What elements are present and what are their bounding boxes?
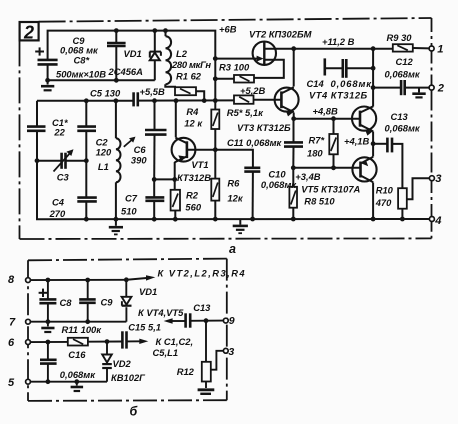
svg-text:22: 22 <box>53 127 65 138</box>
svg-text:120: 120 <box>96 147 112 158</box>
svg-text:С5,L1: С5,L1 <box>153 347 179 358</box>
svg-text:С14: С14 <box>307 78 325 89</box>
svg-text:С5 130: С5 130 <box>90 87 121 98</box>
svg-text:VT3 КТ312Б: VT3 КТ312Б <box>237 122 291 133</box>
svg-text:R8 510: R8 510 <box>304 196 335 207</box>
svg-text:L2: L2 <box>176 48 188 59</box>
svg-text:0,068мк: 0,068мк <box>60 369 96 380</box>
svg-text:б: б <box>130 405 139 419</box>
svg-text:С3: С3 <box>57 172 70 183</box>
svg-text:6: 6 <box>8 337 15 349</box>
svg-text:С8: С8 <box>60 297 73 308</box>
svg-text:R9 30: R9 30 <box>387 32 413 43</box>
svg-text:L1: L1 <box>98 161 109 172</box>
svg-text:3: 3 <box>435 173 442 185</box>
svg-text:0,068мк: 0,068мк <box>385 68 421 79</box>
svg-text:С15 5,1: С15 5,1 <box>128 321 161 332</box>
svg-text:R6: R6 <box>227 178 240 189</box>
svg-text:470: 470 <box>375 197 392 208</box>
svg-text:С10: С10 <box>268 169 286 180</box>
svg-text:R7*: R7* <box>309 135 326 146</box>
svg-text:390: 390 <box>131 154 147 165</box>
svg-text:VT5 КТ3107А: VT5 КТ3107А <box>301 183 360 194</box>
svg-text:С12: С12 <box>396 56 414 67</box>
svg-text:R1 62: R1 62 <box>176 71 202 82</box>
svg-text:К С1,С2,: К С1,С2, <box>156 336 194 347</box>
svg-text:С6: С6 <box>134 144 147 155</box>
svg-text:С13: С13 <box>193 302 211 313</box>
svg-text:R3 100: R3 100 <box>219 62 250 73</box>
svg-text:КТ312В: КТ312В <box>177 172 211 183</box>
svg-text:12 к: 12 к <box>184 118 203 129</box>
svg-text:С8*: С8* <box>74 54 91 65</box>
svg-text:С9: С9 <box>101 296 114 307</box>
svg-text:1: 1 <box>437 44 443 56</box>
svg-text:R5* 5,1к: R5* 5,1к <box>227 107 264 118</box>
svg-text:С16: С16 <box>68 349 86 360</box>
svg-text:+4,8В: +4,8В <box>313 105 339 116</box>
svg-text:270: 270 <box>49 208 66 219</box>
svg-text:5: 5 <box>8 377 15 389</box>
svg-text:+11,2 В: +11,2 В <box>322 36 355 47</box>
svg-text:R11 100к: R11 100к <box>62 324 103 335</box>
svg-text:9: 9 <box>229 315 235 327</box>
svg-text:R2: R2 <box>186 189 199 200</box>
svg-text:С4: С4 <box>52 196 65 207</box>
svg-text:4: 4 <box>434 215 442 227</box>
svg-text:0,068мк: 0,068мк <box>261 179 297 190</box>
svg-text:2: 2 <box>23 23 34 43</box>
svg-text:R4: R4 <box>186 106 199 117</box>
svg-text:0,068мк: 0,068мк <box>331 78 373 89</box>
svg-text:а: а <box>229 242 236 256</box>
svg-text:2: 2 <box>437 83 445 95</box>
svg-text:К VT4,VT5: К VT4,VT5 <box>138 307 184 318</box>
svg-text:7: 7 <box>9 316 16 328</box>
svg-text:R12: R12 <box>177 366 195 377</box>
svg-text:+3,4В: +3,4В <box>295 171 321 182</box>
svg-text:VT1: VT1 <box>191 159 208 170</box>
svg-text:0,068мк: 0,068мк <box>385 123 421 134</box>
svg-text:180: 180 <box>307 148 323 159</box>
svg-text:280 мкГн: 280 мкГн <box>171 59 211 70</box>
svg-text:VD1: VD1 <box>139 286 157 297</box>
svg-text:560: 560 <box>185 202 201 213</box>
svg-text:12к: 12к <box>227 192 243 203</box>
svg-text:510: 510 <box>121 205 137 216</box>
svg-text:VT4 КТ312Б: VT4 КТ312Б <box>309 90 368 101</box>
svg-text:+4,1В: +4,1В <box>344 135 370 146</box>
svg-text:3: 3 <box>228 346 234 358</box>
svg-text:К VT2,L2,R3,R4: К VT2,L2,R3,R4 <box>158 268 247 279</box>
svg-text:R10: R10 <box>376 185 394 196</box>
svg-text:+5,5В: +5,5В <box>140 86 166 97</box>
svg-text:8: 8 <box>8 274 15 286</box>
svg-text:С7: С7 <box>125 193 138 204</box>
svg-text:С13: С13 <box>391 111 409 122</box>
svg-text:VD2: VD2 <box>113 358 132 369</box>
svg-text:500мк×10В: 500мк×10В <box>56 69 106 80</box>
svg-text:2С456А: 2С456А <box>108 66 144 77</box>
svg-text:+5,2В: +5,2В <box>240 85 266 96</box>
svg-text:С11 0,068мк: С11 0,068мк <box>227 137 283 148</box>
svg-text:VT2 КП302БМ: VT2 КП302БМ <box>249 29 312 40</box>
svg-text:+6В: +6В <box>219 23 237 34</box>
svg-text:КВ102Г: КВ102Г <box>111 372 146 383</box>
svg-text:VD1: VD1 <box>124 48 142 59</box>
